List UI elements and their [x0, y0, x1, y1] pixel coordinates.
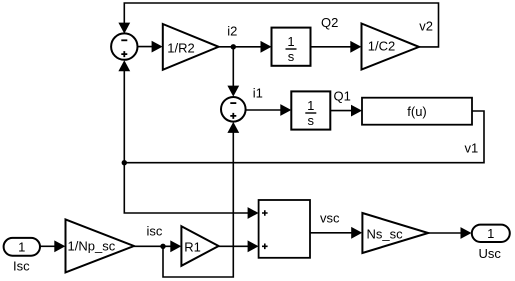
wire v1 down to Sum rect port 1	[124, 163, 258, 219]
svg-text:Ns_sc: Ns_sc	[367, 227, 404, 242]
svg-text:s: s	[308, 113, 315, 128]
wire isc branch to Sum2 (down, right, up)	[163, 122, 239, 277]
wire sum block to Ns_sc	[310, 227, 362, 239]
gain 1/R2	[163, 24, 219, 70]
sum S2 (circle, - top / + bottom)	[221, 97, 246, 122]
svg-text:1/Np_sc: 1/Np_sc	[68, 239, 116, 254]
svg-text:f(u): f(u)	[407, 104, 427, 119]
gain R1	[181, 226, 218, 266]
svg-text:1: 1	[307, 98, 314, 113]
svg-text:Q2: Q2	[321, 15, 338, 30]
wire 1/R2 to integrator 1/s (Q2)	[219, 41, 272, 53]
sum block (rect, + +)	[259, 200, 310, 258]
gain 1/C2	[362, 24, 420, 70]
svg-text:Q1: Q1	[334, 89, 351, 104]
svg-text:isc: isc	[147, 223, 163, 238]
input port 1 (Isc)	[4, 238, 40, 256]
Fcn block f(u)	[362, 98, 472, 125]
wire v1 up into Sum1 (+)	[118, 60, 130, 163]
gain 1/Np_sc	[66, 219, 135, 272]
wire v2 feedback (1/C2 up over top into Sum1 -)	[118, 3, 438, 47]
svg-text:i2: i2	[227, 24, 237, 39]
wire i2 node down into Sum2	[227, 47, 239, 97]
node isc (junction dot)	[160, 244, 165, 249]
sum S1 (circle, - top / + bottom)	[111, 33, 137, 59]
output port 1 (Usc)	[472, 225, 510, 242]
svg-text:1: 1	[287, 34, 294, 49]
svg-text:Isc: Isc	[13, 258, 30, 273]
wire 1/s to f(u)	[330, 105, 362, 117]
wire Isc port to 1/Np_sc	[40, 240, 65, 252]
node v1 (junction dot)	[122, 160, 127, 165]
integrator 1/s (upper)	[272, 28, 311, 66]
svg-text:i1: i1	[253, 86, 263, 101]
svg-text:1/R2: 1/R2	[167, 41, 194, 56]
wire f(u) output to v1 feedback line	[124, 111, 484, 163]
wire R1 to Sum rect port 2	[219, 240, 259, 252]
wire 1/s to 1/C2	[311, 41, 362, 53]
wire Ns_sc to output port	[428, 227, 471, 239]
node i2 (junction dot)	[231, 44, 236, 49]
svg-text:vsc: vsc	[320, 211, 340, 226]
wire 1/Np_sc to R1	[134, 240, 181, 252]
svg-text:R1: R1	[184, 240, 201, 255]
wire Sum1 to 1/R2	[138, 41, 163, 53]
svg-text:v2: v2	[419, 19, 433, 34]
integrator 1/s (lower)	[291, 91, 330, 129]
svg-text:1/C2: 1/C2	[368, 38, 395, 53]
svg-text:Usc: Usc	[479, 246, 502, 261]
svg-text:s: s	[288, 49, 295, 64]
svg-text:1: 1	[18, 239, 25, 254]
gain Ns_sc	[362, 213, 428, 253]
svg-text:v1: v1	[465, 140, 479, 155]
svg-text:1: 1	[487, 226, 494, 241]
wire Sum2 to integrator 1/s (Q1)	[246, 104, 292, 116]
